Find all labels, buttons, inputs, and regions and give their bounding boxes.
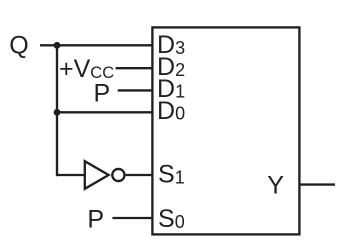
multiplexer U1 body	[152, 27, 299, 234]
wire vertical Q bus	[56, 45, 58, 176]
wire P to D1	[118, 89, 153, 91]
wire Q to D0	[57, 111, 153, 113]
svg-text:S0: S0	[158, 205, 185, 233]
junction dot at Q/D3	[54, 42, 61, 49]
inverter U2 triangle	[85, 161, 109, 189]
wire P to S0	[112, 217, 153, 219]
wire Q bus to inverter input	[56, 174, 84, 176]
svg-text:P: P	[87, 206, 104, 234]
wire Q to D3	[40, 44, 153, 46]
wire inverter to S1	[126, 174, 153, 176]
inverter U2 bubble	[112, 169, 124, 181]
svg-text:Y: Y	[267, 172, 284, 200]
svg-text:P: P	[94, 80, 111, 108]
svg-text:Q: Q	[9, 31, 28, 59]
wire Y output	[299, 183, 335, 185]
svg-text:S1: S1	[158, 161, 185, 189]
junction dot at D0	[54, 109, 61, 116]
wire +VCC to D2	[116, 67, 153, 69]
